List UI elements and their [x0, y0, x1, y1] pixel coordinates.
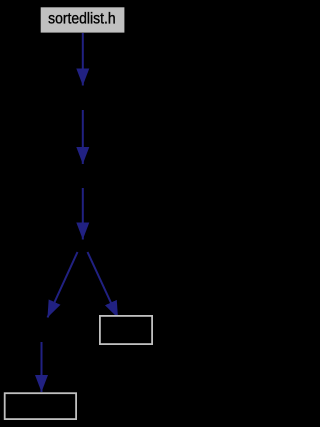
node: bottom left empty box — [5, 393, 76, 419]
edge 3: hidden node 2 -> hidden node 3 — [82, 188, 84, 240]
node sortedlist.h (root file box) — [41, 7, 125, 32]
edge 1: sortedlist.h -> hidden node 1 — [82, 33, 84, 86]
edge 6: hidden node 4 -> bottom left box — [41, 342, 43, 392]
edge 5: hidden node 3 -> right box — [88, 252, 119, 318]
svg-text:sortedlist.h: sortedlist.h — [48, 11, 116, 28]
edge 2: hidden node 1 -> hidden node 2 — [82, 110, 84, 164]
node: right empty box — [100, 316, 152, 344]
edge 4: hidden node 3 -> hidden node 4 (lower left) — [48, 252, 78, 318]
